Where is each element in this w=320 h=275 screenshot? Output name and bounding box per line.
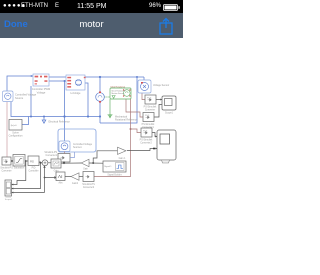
svg-text:Converter1: Converter1 — [45, 154, 57, 157]
node on lower wire — [64, 80, 66, 82]
wire H-bridge lower out down — [85, 83, 88, 117]
svg-text:Simulink-PS: Simulink-PS — [0, 168, 13, 170]
svg-text:Controller PWM: Controller PWM — [32, 87, 50, 91]
svg-text:Ideal Rotational: Ideal Rotational — [111, 85, 126, 88]
svg-text:Voltage Sensor: Voltage Sensor — [153, 84, 169, 87]
wire PWM minus down — [30, 86, 32, 117]
svg-text:Source1: Source1 — [73, 146, 82, 149]
wire Gain1 to Scope — [127, 149, 157, 151]
svg-text:f(x)=0: f(x)=0 — [11, 125, 17, 127]
green shaft motor to sensor box — [104, 96, 110, 98]
wire B2 to B3 — [25, 160, 28, 162]
node ground tap — [63, 115, 65, 117]
svg-text:Gain 1: Gain 1 — [119, 158, 126, 160]
block solver configuration — [9, 120, 22, 131]
PS wire w-line down and to E3 — [94, 99, 131, 177]
svg-text:PS-Simulink: PS-Simulink — [140, 140, 154, 142]
svg-text:PS S: PS S — [143, 130, 148, 132]
svg-text:Electrical Reference: Electrical Reference — [49, 120, 71, 123]
block sum junction — [42, 159, 61, 172]
svg-text:Controlled Voltage: Controlled Voltage — [73, 143, 93, 146]
arrowheads — [31, 75, 33, 77]
wire VS2 to SPS1 — [64, 152, 66, 154]
wire tap B2-B3 to TB scope in1 — [12, 161, 26, 185]
lower bus wire — [11, 102, 100, 117]
wire motor bottom down — [99, 102, 101, 123]
wire solver config connect — [22, 117, 29, 125]
block ideal rotational motion sensor (green) — [110, 88, 131, 99]
svg-text:Signal Builder: Signal Builder — [107, 174, 121, 177]
svg-text:Saturation: Saturation — [14, 167, 25, 170]
svg-text:Signal 1: Signal 1 — [104, 166, 112, 168]
block Scope1 — [162, 96, 176, 110]
wire motor top feed — [99, 77, 101, 92]
block voltage sensor — [138, 80, 151, 93]
block VS1 controlled voltage source — [3, 91, 14, 102]
wire tap B3-sum down to TB scope in2 — [12, 163, 41, 189]
block B2 saturation — [13, 155, 25, 167]
block D1 abs — [56, 172, 65, 181]
svg-text:Configuration: Configuration — [9, 135, 24, 138]
wire signal builder to gains junction — [64, 162, 81, 164]
wire sensor minus down to motor minus — [100, 78, 137, 123]
node PS tap for C3 — [130, 128, 132, 130]
svg-text:PS S: PS S — [145, 115, 150, 117]
wire H-bridge ref down — [64, 81, 66, 141]
svg-text:Solver: Solver — [12, 132, 19, 135]
svg-text:Converter: Converter — [145, 109, 155, 112]
block simulink-PS converter SPS1 — [58, 154, 70, 163]
svg-text:Motion Sensor: Motion Sensor — [112, 92, 125, 95]
green wire rotational reference — [109, 99, 111, 115]
wire sensor top feed — [143, 77, 145, 80]
block PS-Simulink converter C1 — [145, 95, 156, 104]
block DC motor circle — [96, 92, 105, 103]
wire branch to Abs block D1 — [45, 177, 57, 179]
block scope2 (3-input, bottom-left) — [5, 180, 12, 198]
svg-text:Source: Source — [15, 96, 24, 100]
wire PWM to H-bridge upper — [49, 76, 66, 78]
green ground mech rotational reference — [108, 115, 113, 118]
svg-text:Converter2: Converter2 — [83, 186, 95, 189]
block B1 simulink-PS converter bottom-left — [2, 157, 11, 165]
block D3 simulink-PS converter2 — [83, 172, 94, 182]
block controller PWM voltage — [33, 74, 49, 86]
wire D2 to D3 — [79, 176, 83, 178]
wire sum feedback riser — [44, 166, 46, 193]
ground electrical reference — [42, 117, 46, 124]
svg-text:Simulink-PS: Simulink-PS — [44, 152, 57, 154]
node motor tap — [99, 76, 101, 78]
pink PS wire VS1 control — [6, 102, 8, 158]
svg-text:Controlled Voltage: Controlled Voltage — [15, 93, 37, 97]
PS wire voltage sensor to C1 — [142, 93, 145, 100]
PS wire tap to C3 — [131, 129, 142, 133]
svg-text:Rotational Reference: Rotational Reference — [115, 119, 138, 122]
wire sum riser to TB scope in3 — [12, 192, 45, 194]
svg-text:Simulink-PS: Simulink-PS — [82, 184, 95, 186]
svg-text:Gain2: Gain2 — [72, 183, 79, 185]
wire junction up to gain1 — [93, 151, 117, 163]
svg-text:PS S: PS S — [147, 97, 152, 99]
svg-text:Gain: Gain — [83, 169, 89, 171]
block gain1 (right pointing) — [118, 147, 127, 154]
node motor return — [99, 115, 101, 117]
svg-text:PID: PID — [32, 168, 36, 170]
svg-text:PS-Simulink: PS-Simulink — [144, 107, 158, 109]
wire C3 to Scope input — [152, 133, 157, 137]
block PS-Simulink converter C3 — [141, 128, 152, 137]
wire PWM to H-bridge lower — [49, 80, 66, 82]
wire B1 to B2 — [11, 160, 13, 162]
block signal builder — [103, 161, 126, 172]
block PS-Simulink converter C2 — [143, 113, 154, 122]
PS wire motion sensor to C2 — [126, 99, 143, 117]
wire sum to SPS1 — [48, 162, 64, 164]
wire top-left from VS1 to PWM — [7, 76, 33, 91]
wire C2 to Scope1 second input — [154, 105, 162, 118]
block H-bridge — [66, 75, 86, 90]
block B3 PID — [28, 156, 39, 166]
svg-text:Converter: Converter — [1, 170, 11, 173]
wire D1 to D2 — [65, 176, 71, 178]
svg-text:Converter2: Converter2 — [140, 142, 152, 145]
wire B3 to sum — [39, 161, 42, 164]
svg-text:H-bridge: H-bridge — [71, 91, 82, 95]
svg-text:Scope1: Scope1 — [165, 113, 174, 115]
wire H-bridge out right bus — [85, 76, 144, 78]
wire C1 to Scope1 — [156, 99, 162, 101]
svg-text:Voltage: Voltage — [37, 91, 46, 95]
block Scope — [157, 130, 176, 163]
wire loop around VS2 (blue box) — [58, 129, 96, 152]
svg-text:Controller: Controller — [29, 170, 39, 173]
node sensor branch on top bus — [136, 76, 138, 78]
node hbridge return — [87, 115, 89, 117]
block VS2 controlled voltage source 1 — [59, 141, 70, 152]
svg-text:Abs: Abs — [59, 182, 64, 185]
block gain (left pointing) — [81, 159, 89, 166]
gain block D2 (left pointing) — [71, 173, 79, 181]
svg-text:PID: PID — [30, 160, 34, 163]
svg-text:PS-Simulink: PS-Simulink — [142, 124, 156, 126]
svg-text:Scope2: Scope2 — [5, 199, 13, 201]
